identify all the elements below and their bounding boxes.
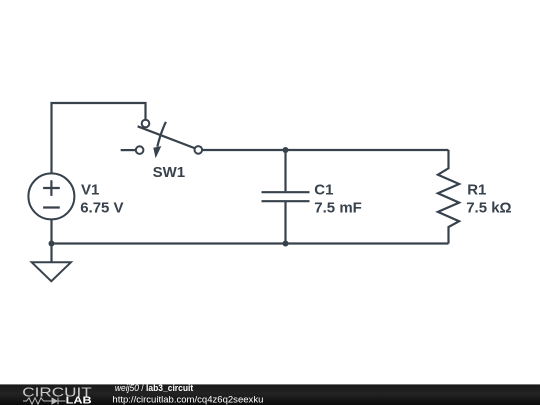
svg-text:SW1: SW1: [153, 164, 186, 181]
svg-text:C1: C1: [314, 181, 333, 198]
svg-text:http://circuitlab.com/cq4z6q2s: http://circuitlab.com/cq4z6q2seexku: [112, 394, 263, 405]
svg-text:LAB: LAB: [66, 396, 92, 405]
svg-text:R1: R1: [467, 181, 486, 198]
svg-text:7.5 kΩ: 7.5 kΩ: [466, 200, 511, 217]
svg-text:7.5 mF: 7.5 mF: [314, 199, 362, 216]
svg-text:weij50 / lab3_circuit: weij50 / lab3_circuit: [115, 383, 193, 393]
svg-text:6.75 V: 6.75 V: [80, 200, 123, 217]
svg-text:V1: V1: [81, 181, 99, 198]
